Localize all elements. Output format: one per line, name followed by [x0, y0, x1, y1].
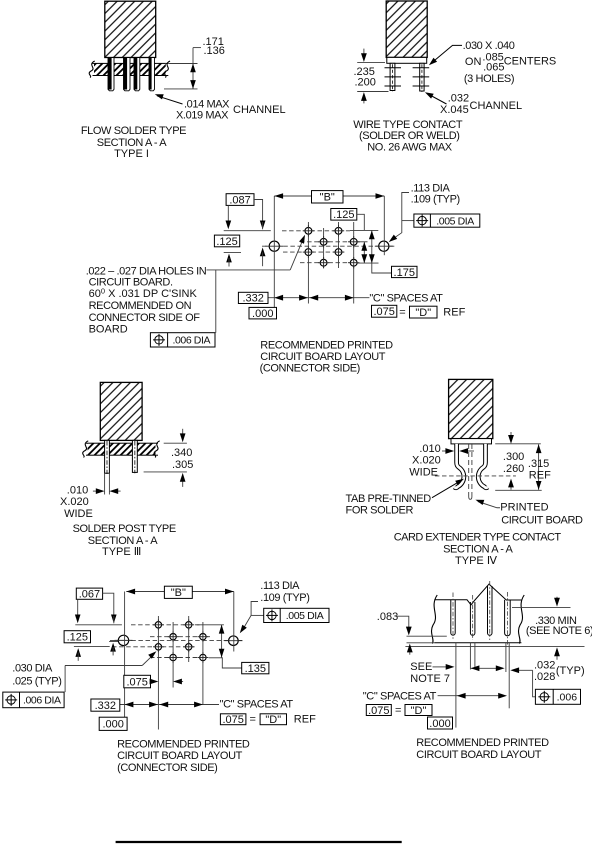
- contact hole 4 (middle layout): [350, 238, 357, 245]
- row 4 dashed line (bl): [150, 657, 200, 659]
- svg-text:FOR SOLDER: FOR SOLDER: [346, 505, 414, 517]
- svg-text:=: =: [399, 306, 405, 318]
- leader TAB PRE-TINNED (arrow to left hook): [432, 481, 461, 498]
- svg-text:.030 X .040: .030 X .040: [463, 40, 515, 52]
- column 2 line (bl): [172, 622, 174, 688]
- row 3 extension left (bl): [74, 646, 110, 648]
- svg-text:.006 DIA: .006 DIA: [23, 695, 61, 707]
- svg-text:=: =: [395, 705, 401, 717]
- svg-text:X.020: X.020: [60, 496, 89, 508]
- svg-text:SEE: SEE: [410, 661, 432, 673]
- centerline dashed through mounting holes (middle layout): [262, 245, 396, 247]
- wire contact pin right: [420, 63, 424, 91]
- .330 MIN down arrow: [556, 597, 558, 600]
- .032/.028 leader arrow at slot 4: [514, 669, 533, 671]
- row 2 dashed line: [300, 241, 360, 243]
- svg-text:RECOMMENDED ON: RECOMMENDED ON: [89, 300, 192, 312]
- column 4 line (bl): [202, 622, 204, 704]
- extension line hook bottom (Type IV): [495, 489, 542, 491]
- board bottom edge (br): [434, 642, 521, 644]
- svg-text:.315: .315: [528, 458, 549, 470]
- contact hole 5 (bottom-left layout): [155, 644, 161, 650]
- svg-text:ON: ON: [465, 56, 482, 68]
- leader .067 right arrow: [103, 593, 114, 616]
- svg-text:"D": "D": [265, 714, 281, 726]
- svg-text:.175: .175: [394, 267, 415, 279]
- row 3 dashed line (bl): [112, 646, 196, 648]
- Type III connector body (hatched block): [100, 382, 142, 440]
- row 3 extension left: [224, 251, 241, 253]
- svg-text:X.020: X.020: [412, 455, 441, 467]
- svg-text:.075: .075: [222, 714, 243, 726]
- leader .087 right arrow: [254, 200, 263, 223]
- svg-text:CIRCUIT BOARD LAYOUT: CIRCUIT BOARD LAYOUT: [117, 750, 243, 762]
- extension line left mounting hole vertical: [273, 196, 275, 307]
- dimension arrows .340/.305: [182, 429, 184, 434]
- contact hole 7 (middle layout): [320, 259, 327, 266]
- bottom dimension line .332 / C spaces (bl): [120, 704, 219, 706]
- mounting hole right .113 DIA (bl): [229, 636, 239, 646]
- mounting hole left (.113 DIA): [269, 241, 279, 251]
- feature control frame .005 DIA (bl): [251, 614, 264, 616]
- svg-text:.006 DIA: .006 DIA: [172, 335, 210, 347]
- .067 left arrow: [77, 599, 79, 616]
- leader from hole note text to hole 1: [207, 269, 291, 271]
- inner vertical dimension arrows (rows 2-4): [363, 242, 365, 263]
- extension line right mounting hole vertical: [383, 196, 385, 255]
- svg-text:BOARD: BOARD: [89, 323, 128, 335]
- svg-text:WIDE: WIDE: [64, 508, 93, 520]
- slot spacing dimension arrows (br): [471, 667, 503, 669]
- svg-text:.067: .067: [79, 589, 100, 601]
- svg-text:.006: .006: [557, 692, 578, 704]
- svg-text:.075: .075: [373, 306, 394, 318]
- svg-text:.025 (TYP): .025 (TYP): [12, 675, 61, 687]
- dimension arrows .300/.260: [510, 432, 512, 436]
- solder post right: [132, 440, 137, 472]
- svg-text:.005 DIA: .005 DIA: [286, 610, 324, 622]
- svg-text:=: =: [250, 714, 256, 726]
- svg-text:600 X .031 DP C'SINK: 600 X .031 DP C'SINK: [89, 287, 198, 301]
- slot 1 (br): [450, 600, 452, 633]
- svg-text:CENTERS: CENTERS: [504, 55, 557, 67]
- svg-text:.300: .300: [503, 451, 524, 463]
- row 4 extension right: [352, 262, 379, 264]
- leader to .006 tolerance frame (br): [533, 670, 536, 697]
- svg-text:TYPE Ⅳ: TYPE Ⅳ: [455, 555, 498, 567]
- contact hole 6 (middle layout): [335, 249, 342, 256]
- svg-text:CHANNEL: CHANNEL: [470, 100, 523, 112]
- horizontal centerline dashed (Type IV): [435, 475, 516, 477]
- bottom dimension line .332 / C spaces: [267, 297, 370, 299]
- leader .113 DIA to right mounting hole (bl): [242, 602, 258, 631]
- label box .000 (bl): [99, 717, 127, 730]
- up arrow at centerline under left hole: [260, 248, 266, 257]
- contact hole 3 (middle layout): [320, 238, 327, 245]
- svg-text:.087: .087: [229, 194, 250, 206]
- svg-text:TYPE I: TYPE I: [114, 148, 149, 160]
- label box "D": [410, 306, 438, 318]
- svg-text:.125: .125: [216, 236, 237, 248]
- svg-text:CHANNEL: CHANNEL: [233, 104, 286, 116]
- label box .087: [226, 194, 254, 206]
- extension lines .235/.200: [357, 62, 385, 64]
- row 1 extension left (bl): [75, 624, 122, 626]
- up arrow at circle centerline (bl): [110, 643, 116, 652]
- row 4 extension right (bl): [209, 657, 223, 659]
- pin 1 (Type I): [108, 58, 114, 91]
- label box "B" (bl): [164, 586, 192, 598]
- svg-text:.000: .000: [429, 718, 450, 730]
- label box .125 (bl): [64, 631, 90, 643]
- svg-text:REF: REF: [443, 307, 465, 319]
- Type II connector body (hatched block): [386, 1, 427, 57]
- board bottom extension left (br): [407, 642, 435, 644]
- label box "B": [312, 191, 344, 203]
- slot 2 (br): [469, 602, 471, 633]
- svg-text:RECOMMENDED PRINTED: RECOMMENDED PRINTED: [117, 739, 250, 751]
- svg-text:X.045: X.045: [440, 104, 469, 116]
- slot 4 (br): [504, 600, 506, 633]
- solder post left: [105, 440, 110, 473]
- .125 up arrow at row3 (bl): [75, 648, 81, 657]
- outer vertical dimension arrows (rows 1-4): [371, 231, 373, 264]
- dimension arrows .235/.200: [363, 49, 365, 55]
- svg-text:.135: .135: [245, 663, 266, 675]
- svg-text:.136: .136: [204, 45, 225, 57]
- svg-text:(CONNECTOR SIDE): (CONNECTOR SIDE): [260, 363, 360, 375]
- extension line pin tip (Type I): [164, 88, 198, 90]
- extension line right mounting hole vertical (bl): [233, 592, 235, 652]
- svg-text:"D": "D": [415, 307, 431, 319]
- svg-text:CARD EXTENDER TYPE CONTACT: CARD EXTENDER TYPE CONTACT: [394, 531, 562, 543]
- wire contact pin left: [390, 63, 395, 90]
- row 2 dashed line (bl): [150, 636, 210, 638]
- right contact strip and hook: [478, 444, 487, 488]
- leader .113 DIA to right mounting hole: [391, 193, 409, 241]
- post width dimension arrows .010 X.020: [93, 490, 97, 492]
- feature control frame .006 (br): [535, 689, 580, 704]
- svg-text:"D": "D": [411, 705, 427, 717]
- post width extension lines: [104, 473, 106, 494]
- pin 4 (Type I): [149, 58, 155, 91]
- contact hole 1 (bottom-left layout): [155, 622, 161, 628]
- column 3 line: [338, 222, 340, 268]
- contact hole 4 (bottom-left layout): [200, 634, 206, 640]
- page footer rule: [116, 841, 402, 843]
- column 2 line: [323, 228, 325, 268]
- contact hole 2 (middle layout): [335, 227, 342, 234]
- label box .075 (bl bottom): [220, 714, 246, 725]
- svg-text:FLOW SOLDER TYPE: FLOW SOLDER TYPE: [81, 125, 186, 137]
- svg-text:.125: .125: [333, 209, 354, 221]
- circuit board (Type I, hatched strip with break ends): [93, 63, 169, 75]
- leader PRINTED CIRCUIT BOARD (arrow to card edge): [478, 502, 500, 508]
- svg-text:.010: .010: [419, 443, 440, 455]
- Type IV connector body (hatched block): [449, 379, 493, 438]
- connector base plate (Type IV): [451, 439, 492, 444]
- row 2 short extension tick: [360, 241, 368, 243]
- svg-text:REF: REF: [294, 714, 316, 726]
- dimension "B" line with arrows: [274, 195, 384, 197]
- row 1 dashed line (bl): [131, 624, 200, 626]
- svg-text:.000: .000: [252, 308, 273, 320]
- label box .125 (left): [214, 235, 239, 247]
- svg-text:"B": "B": [171, 587, 186, 599]
- contact hole 8 (middle layout): [350, 259, 357, 266]
- svg-text:TAB PRE-TINNED: TAB PRE-TINNED: [346, 493, 432, 505]
- svg-text:.065: .065: [483, 62, 504, 74]
- svg-text:.125: .125: [67, 632, 88, 644]
- connector base band (Type II): [387, 57, 427, 63]
- row 4 dashed line: [300, 262, 350, 264]
- label box "D" (br): [405, 705, 432, 716]
- top reference line .330 MIN (br): [512, 606, 571, 608]
- svg-text:(SOLDER OR WELD): (SOLDER OR WELD): [359, 130, 460, 142]
- svg-text:REF: REF: [529, 470, 551, 482]
- right break line (br): [519, 595, 525, 644]
- svg-text:.332: .332: [95, 700, 116, 712]
- hole tick marks (3 holes) left pin: [385, 67, 402, 69]
- svg-text:.340: .340: [171, 447, 192, 459]
- leader .014 MAX channel (arrow to pin 4 tip): [157, 96, 183, 104]
- mounting hole right (.113 DIA): [379, 241, 389, 251]
- contact hole 6 (bottom-left layout): [186, 644, 192, 650]
- svg-text:.109 (TYP): .109 (TYP): [260, 592, 309, 604]
- column 1 line (bl): [157, 616, 159, 730]
- leader to .175 box: [372, 263, 392, 273]
- contact hole 8 (bottom-left layout): [200, 654, 206, 660]
- svg-text:.014 MAX: .014 MAX: [184, 98, 230, 110]
- svg-text:.010: .010: [67, 484, 88, 496]
- svg-text:NO. 26 AWG MAX: NO. 26 AWG MAX: [367, 142, 453, 154]
- svg-text:"B": "B": [320, 192, 335, 204]
- label box .135: [242, 662, 269, 673]
- feature control frame .005 DIA (middle right): [402, 220, 414, 222]
- svg-text:CIRCUIT BOARD: CIRCUIT BOARD: [501, 514, 583, 526]
- extension line board top (Type I): [169, 63, 198, 65]
- svg-text:TYPE Ⅲ: TYPE Ⅲ: [102, 546, 141, 558]
- svg-text:"C" SPACES AT: "C" SPACES AT: [363, 690, 437, 702]
- svg-text:.075: .075: [126, 676, 147, 688]
- label box .175: [392, 266, 418, 277]
- label box .125 (top): [331, 209, 357, 221]
- pin 2 (Type I): [124, 58, 131, 91]
- left contact strip and hook: [454, 444, 463, 488]
- .330 MIN up arrow: [556, 653, 558, 660]
- svg-text:(TYP): (TYP): [556, 665, 585, 677]
- leader .125 top to inner dimension: [357, 214, 365, 230]
- label box .000: [249, 307, 277, 319]
- contact hole 7 (bottom-left layout): [170, 654, 176, 660]
- board edge outline with peak (bottom-right): [434, 584, 521, 605]
- row 1 extension right: [350, 229, 378, 231]
- extension line block bottom (Type IV): [495, 443, 541, 445]
- column 4 line: [353, 222, 355, 304]
- column 1 line: [307, 222, 309, 304]
- bottom extension line (br): [405, 646, 584, 648]
- svg-text:(3 HOLES): (3 HOLES): [464, 73, 514, 85]
- .125 up arrow at row3: [226, 254, 232, 263]
- label box .332: [238, 292, 268, 303]
- svg-text:.109 (TYP): .109 (TYP): [411, 194, 460, 206]
- .087 left arrow: [227, 205, 229, 222]
- SEE NOTE 7 arrow: [433, 666, 448, 668]
- contact hole 1 (middle layout): [305, 227, 312, 234]
- contact hole 3 (bottom-left layout): [170, 634, 176, 640]
- row 3 dashed line: [283, 251, 345, 253]
- row 1 dashed line: [282, 230, 350, 232]
- svg-text:NOTE 7: NOTE 7: [410, 673, 450, 685]
- vertical connector from note to tolerance frame: [215, 270, 217, 333]
- svg-text:X.019 MAX: X.019 MAX: [176, 110, 229, 122]
- dimension "B" line with arrows (bl): [126, 591, 234, 593]
- row 1 extension left: [224, 230, 271, 232]
- slot 2 extension lines down (br): [469, 643, 471, 670]
- label box "D" (bl): [260, 714, 286, 725]
- svg-text:RECOMMENDED PRINTED: RECOMMENDED PRINTED: [260, 340, 393, 352]
- right vertical dimension arrows rows1-4 (bl): [221, 625, 223, 658]
- svg-text:.332: .332: [242, 293, 263, 305]
- svg-text:.113 DIA: .113 DIA: [260, 580, 300, 592]
- slot 1 extension line down (br): [455, 643, 457, 728]
- vertical connector note to tolerance frame (bl): [64, 666, 66, 693]
- feature control frame .006 DIA (middle left): [150, 333, 215, 347]
- svg-text:.022 – .027 DIA HOLES IN: .022 – .027 DIA HOLES IN: [86, 265, 207, 277]
- row 1 extension right (bl): [197, 624, 224, 626]
- feature control frame .006 DIA (bottom-left): [3, 692, 64, 708]
- printed circuit board dashed outline (card): [468, 444, 470, 497]
- leader to .135 box: [222, 658, 241, 668]
- Type I connector body (hatched block): [105, 1, 156, 57]
- svg-text:CIRCUIT BOARD LAYOUT: CIRCUIT BOARD LAYOUT: [416, 749, 542, 761]
- pin 3 (Type I): [134, 58, 140, 91]
- extension line left mounting hole vertical (bl): [124, 592, 126, 718]
- label box .075 (br): [366, 705, 391, 716]
- leader from .030 DIA note to hole (bl): [65, 665, 142, 667]
- .083 up arrow: [409, 648, 411, 655]
- svg-text:SOLDER POST TYPE: SOLDER POST TYPE: [73, 523, 176, 535]
- svg-text:.000: .000: [102, 719, 123, 731]
- column 3 line (bl): [188, 616, 190, 662]
- left break line (br): [432, 595, 438, 644]
- svg-text:.030 DIA: .030 DIA: [12, 663, 53, 675]
- label box .000 (br): [428, 717, 453, 729]
- leader .083 down arrow: [397, 616, 409, 628]
- circle centerline extension (bl): [109, 641, 118, 643]
- svg-text:.113 DIA: .113 DIA: [411, 183, 451, 195]
- svg-text:(SEE NOTE 6): (SEE NOTE 6): [526, 625, 592, 637]
- svg-text:PRINTED: PRINTED: [500, 502, 548, 514]
- svg-text:RECOMMENDED PRINTED: RECOMMENDED PRINTED: [416, 737, 549, 749]
- svg-text:.032: .032: [448, 92, 469, 104]
- svg-text:.005 DIA: .005 DIA: [436, 215, 474, 227]
- svg-text:.083: .083: [377, 611, 398, 623]
- extension line board top (Type III): [164, 442, 187, 444]
- extension line post bottom (Type III): [144, 471, 187, 473]
- slot 3 (br): [487, 586, 489, 633]
- .075 arrows (bl): [151, 681, 153, 683]
- slot 4 extension lines down (br): [505, 643, 507, 672]
- slot-bottom extension line left (br): [407, 635, 447, 637]
- mounting hole left .113 DIA (bl): [118, 635, 128, 645]
- svg-text:.075: .075: [368, 705, 389, 717]
- label box .332 (bl): [91, 699, 120, 711]
- svg-text:.032: .032: [534, 660, 555, 672]
- svg-text:.028: .028: [534, 671, 555, 683]
- label box .067: [76, 588, 102, 599]
- contact hole 5 (middle layout): [305, 249, 312, 256]
- svg-text:.260: .260: [503, 463, 524, 475]
- svg-text:(CONNECTOR SIDE): (CONNECTOR SIDE): [117, 762, 217, 774]
- svg-text:.200: .200: [355, 77, 376, 89]
- hole tick marks (3 holes) right pin: [413, 67, 430, 69]
- svg-text:.305: .305: [172, 459, 193, 471]
- centerline dashed through mounting holes (bottom-left layout): [110, 639, 243, 641]
- leader .030 X .040 (arrow to right pin top): [432, 45, 463, 63]
- C spaces dimension line (br): [438, 695, 504, 697]
- svg-text:"C" SPACES AT: "C" SPACES AT: [369, 292, 443, 304]
- contact hole 2 (bottom-left layout): [186, 622, 192, 628]
- label box .075: [372, 305, 397, 317]
- leader .032 X.045 channel (arrow to right pin bottom): [428, 94, 447, 104]
- circuit board (Type III, hatched strip): [86, 443, 158, 455]
- svg-text:CIRCUIT BOARD LAYOUT: CIRCUIT BOARD LAYOUT: [260, 351, 386, 363]
- dimension .315 REF double arrow: [538, 444, 540, 490]
- label box .075 (near pattern bl): [124, 675, 151, 688]
- svg-text:WIDE: WIDE: [409, 466, 438, 478]
- contact width arrows .010 X.020 (Type IV): [442, 450, 447, 452]
- svg-text:SECTION A - A: SECTION A - A: [443, 543, 513, 555]
- svg-text:"C" SPACES AT: "C" SPACES AT: [220, 698, 294, 710]
- dimension .171/.136 vertical line with arrows: [192, 48, 194, 89]
